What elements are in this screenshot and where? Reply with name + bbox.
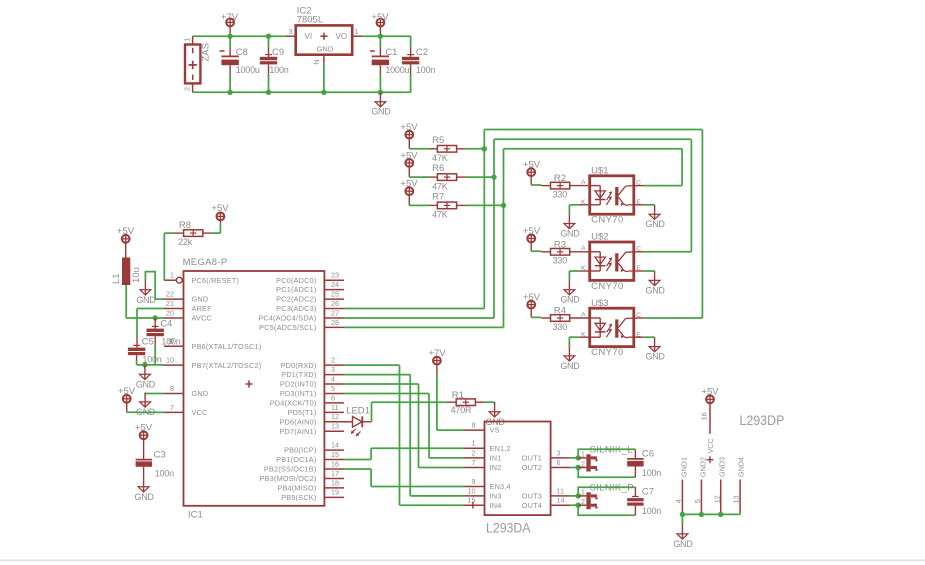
svg-text:330: 330	[553, 190, 568, 200]
svg-text:+5V: +5V	[118, 386, 136, 397]
svg-text:R4: R4	[554, 306, 566, 317]
svg-text:47K: 47K	[432, 181, 448, 191]
wire SILNIK_P loop	[578, 487, 635, 515]
wire top rail +5V out	[361, 35, 410, 37]
svg-text:IN4: IN4	[490, 501, 502, 510]
svg-text:4: 4	[674, 499, 683, 503]
wire pin8 GND	[145, 392, 164, 395]
svg-text:PD1(TXD): PD1(TXD)	[281, 370, 316, 379]
svg-text:GND: GND	[192, 389, 209, 398]
svg-text:C1: C1	[385, 47, 397, 58]
svg-text:GND: GND	[560, 295, 580, 305]
svg-text:22: 22	[166, 289, 174, 298]
svg-text:PB4(MISO): PB4(MISO)	[277, 483, 316, 492]
svg-text:17: 17	[331, 469, 339, 478]
svg-text:GND: GND	[135, 492, 155, 502]
svg-text:21: 21	[166, 299, 174, 308]
wire PC4 pin27 to R6 node	[344, 177, 494, 318]
svg-text:PC0(ADC0): PC0(ADC0)	[276, 276, 316, 285]
wire U$1 K to ground	[569, 205, 589, 214]
svg-text:CNY70: CNY70	[591, 215, 624, 226]
frame border line	[0, 559, 925, 561]
opto-coupler U$3 CNY70	[581, 298, 641, 358]
wire PD1 to IN3	[344, 375, 465, 496]
capacitor C4 100n	[147, 318, 181, 365]
junction C1 bottom	[378, 90, 383, 95]
resistor R1 470R	[447, 390, 495, 415]
svg-text:12: 12	[331, 412, 339, 421]
svg-text:+5V: +5V	[523, 292, 541, 303]
ground at pin22	[136, 280, 156, 304]
wire +7V to VS pin8	[437, 364, 465, 430]
svg-text:2: 2	[581, 499, 585, 506]
svg-text:A: A	[581, 179, 586, 186]
supply +5V for R4	[523, 292, 541, 317]
diode LED1	[346, 406, 370, 437]
svg-text:470R: 470R	[451, 405, 472, 415]
capacitor C8 1000u	[220, 36, 260, 92]
svg-text:PC4(ADC4/SDA): PC4(ADC4/SDA)	[258, 314, 316, 323]
svg-text:VCC: VCC	[706, 438, 715, 453]
svg-text:GND: GND	[192, 295, 209, 304]
svg-text:GND3: GND3	[718, 457, 727, 477]
junction +7V rail	[227, 34, 232, 39]
svg-text:A: A	[581, 245, 586, 252]
resistor R4 330	[531, 306, 590, 332]
wire net PC3 bus (U$3)	[484, 130, 702, 319]
svg-text:+5V: +5V	[701, 387, 719, 398]
svg-text:C8: C8	[236, 47, 248, 58]
svg-text:47K: 47K	[432, 210, 448, 220]
wire U$1 E emitter	[634, 204, 655, 206]
svg-text:ZAS: ZAS	[201, 43, 212, 61]
svg-text:L293DA: L293DA	[486, 520, 531, 536]
wire U$3 E emitter	[634, 336, 655, 338]
capacitor C3 100n	[136, 439, 175, 479]
svg-text:A: A	[581, 311, 586, 318]
microcontroller IC1 MEGA8-P	[164, 257, 344, 521]
wire pin22 GND detour	[145, 272, 164, 299]
svg-text:EN3,4: EN3,4	[490, 482, 511, 491]
svg-text:N: N	[312, 59, 321, 64]
junction OUT SILNIK_P 2	[570, 503, 581, 508]
wire LED1 to R1	[362, 402, 447, 422]
svg-text:20: 20	[166, 308, 174, 317]
L293DP power symbol	[674, 403, 784, 514]
svg-text:CNY70: CNY70	[591, 347, 624, 358]
svg-text:EN1,2: EN1,2	[490, 444, 511, 453]
svg-text:1: 1	[183, 37, 192, 41]
svg-text:C3: C3	[154, 449, 166, 460]
svg-text:23: 23	[331, 271, 339, 280]
battery ZAS	[183, 36, 212, 92]
wire U$2 C collector	[634, 251, 645, 253]
svg-text:GND: GND	[371, 107, 391, 117]
svg-text:C7: C7	[642, 486, 654, 497]
svg-text:10: 10	[468, 486, 476, 495]
ground L293DP	[673, 525, 693, 549]
svg-text:1: 1	[472, 439, 476, 448]
svg-text:+7V: +7V	[428, 348, 446, 359]
supply +5V for L1	[117, 226, 135, 243]
svg-text:GND: GND	[646, 219, 666, 229]
supply +5V for L293DP	[701, 387, 719, 404]
svg-text:+5V: +5V	[211, 203, 229, 214]
svg-text:2: 2	[472, 448, 476, 457]
junction OUT SILNIK_P 1	[570, 493, 581, 498]
opto-coupler U$2 CNY70	[581, 232, 641, 292]
resistor R6 47K	[409, 163, 494, 191]
regulator IC2 7805L	[286, 6, 361, 65]
svg-text:OUT1: OUT1	[522, 454, 542, 463]
wire U$2 K to ground	[569, 271, 589, 280]
svg-text:15: 15	[331, 450, 339, 459]
svg-text:GND1: GND1	[680, 457, 689, 477]
svg-text:U$1: U$1	[591, 165, 608, 176]
svg-text:10u: 10u	[131, 267, 142, 283]
svg-text:100n: 100n	[416, 65, 435, 75]
wire L293DP grounds	[682, 514, 740, 524]
svg-text:PB1(OC1A): PB1(OC1A)	[276, 455, 316, 464]
svg-text:14: 14	[331, 441, 339, 450]
motor driver L293DA	[465, 421, 571, 536]
capacitor C1 1000u	[370, 36, 410, 92]
svg-text:PB7(XTAL2/TOSC2): PB7(XTAL2/TOSC2)	[192, 361, 262, 370]
svg-text:PD6(AIN0): PD6(AIN0)	[279, 417, 316, 426]
svg-text:22k: 22k	[178, 237, 193, 247]
svg-text:PD4(XCK/T0): PD4(XCK/T0)	[270, 399, 317, 408]
ground for R1	[486, 402, 506, 426]
svg-text:OUT4: OUT4	[522, 501, 542, 510]
resistor R3 330	[531, 239, 590, 265]
wire bottom GND rail	[193, 91, 411, 93]
svg-text:6: 6	[331, 393, 335, 402]
wire U$1 C collector	[634, 185, 645, 187]
svg-text:GND4: GND4	[737, 457, 746, 477]
ground U$1 K	[560, 214, 580, 238]
supply +5V for VCC pin7	[118, 386, 136, 403]
svg-text:PD0(RXD): PD0(RXD)	[280, 361, 316, 370]
svg-text:PC2(ADC2): PC2(ADC2)	[276, 295, 316, 304]
svg-text:18: 18	[331, 478, 339, 487]
svg-text:24: 24	[331, 280, 339, 289]
svg-text:7: 7	[472, 458, 476, 467]
svg-text:GND: GND	[560, 229, 580, 239]
ground U$3 E	[646, 337, 666, 361]
wire U$3 C collector	[634, 317, 645, 319]
ground U$2 E	[646, 271, 666, 295]
supply +7V	[221, 12, 239, 36]
svg-text:19: 19	[331, 488, 339, 497]
junction C8 bottom	[227, 90, 232, 95]
supply +5V for R7	[400, 179, 418, 206]
svg-text:PB5(SCK): PB5(SCK)	[281, 493, 316, 502]
connector SILNIK_L	[578, 445, 632, 472]
svg-text:R5: R5	[432, 135, 444, 146]
junction AVCC node	[153, 315, 158, 320]
junction +5V rail	[378, 34, 383, 39]
svg-text:3: 3	[288, 27, 292, 36]
svg-text:GND: GND	[136, 379, 156, 389]
junction OUT SILNIK_L 1	[570, 455, 581, 460]
wire U$2 E emitter	[634, 270, 655, 272]
svg-text:12: 12	[712, 495, 721, 503]
supply +5V for C3	[135, 422, 153, 439]
svg-text:IN1: IN1	[490, 454, 502, 463]
resistor R5 47K	[409, 135, 484, 163]
pin 9 number overlap	[168, 337, 172, 346]
svg-text:+5V: +5V	[523, 226, 541, 237]
junction DP gnd 1	[680, 512, 685, 517]
svg-text:PB0(ICP): PB0(ICP)	[284, 446, 316, 455]
inductor L1 10u	[111, 243, 142, 285]
wire caps to PB7 pin10	[137, 364, 164, 366]
svg-text:330: 330	[553, 256, 568, 266]
junction DP gnd 2	[699, 512, 704, 517]
svg-text:PC6(/RESET): PC6(/RESET)	[192, 276, 240, 285]
svg-text:+5V: +5V	[371, 12, 389, 23]
svg-text:9: 9	[168, 337, 172, 346]
wire PB2 to EN3,4	[344, 469, 465, 487]
svg-text:PD3(INT1): PD3(INT1)	[280, 389, 317, 398]
svg-text:9: 9	[472, 477, 476, 486]
svg-text:PD7(AIN1): PD7(AIN1)	[279, 427, 316, 436]
svg-text:C5: C5	[142, 336, 154, 347]
svg-text:R7: R7	[432, 191, 444, 202]
wire IC2 GND pin to rail	[323, 63, 325, 92]
wire PD6 to LED1	[344, 421, 353, 423]
svg-text:LED1: LED1	[346, 406, 370, 417]
wire U$3 K to ground	[569, 337, 589, 346]
svg-text:PD5(T1): PD5(T1)	[288, 408, 317, 417]
resistor R8 22k	[164, 220, 220, 247]
svg-text:R2: R2	[554, 173, 566, 184]
opto-coupler U$1 CNY70	[581, 165, 641, 225]
svg-text:IC1: IC1	[188, 509, 203, 520]
svg-text:8: 8	[472, 421, 476, 430]
ground at XTAL node	[136, 365, 156, 389]
svg-text:100n: 100n	[642, 468, 661, 478]
junction C9 bottom	[266, 90, 271, 95]
wire net PC4 bus (U$2)	[494, 139, 691, 252]
svg-text:100n: 100n	[269, 65, 288, 75]
svg-text:10: 10	[166, 356, 174, 365]
svg-text:1: 1	[581, 490, 585, 497]
svg-text:7805L: 7805L	[297, 14, 323, 25]
svg-text:+5V: +5V	[523, 160, 541, 171]
svg-text:PC3(ADC3): PC3(ADC3)	[276, 304, 316, 313]
svg-text:100n: 100n	[642, 506, 661, 516]
svg-text:1000u: 1000u	[385, 65, 409, 75]
svg-text:AREF: AREF	[192, 304, 213, 313]
svg-text:R1: R1	[452, 390, 464, 401]
svg-text:OUT2: OUT2	[522, 463, 542, 472]
svg-text:25: 25	[331, 289, 339, 298]
svg-text:VCC: VCC	[192, 408, 208, 417]
wire SILNIK_L loop	[578, 449, 635, 477]
svg-text:IN3: IN3	[490, 492, 502, 501]
svg-text:R8: R8	[179, 220, 191, 231]
svg-text:7: 7	[170, 403, 174, 412]
supply +5V for R6	[400, 150, 418, 177]
wire R8 to /RESET pin1	[163, 233, 165, 280]
svg-text:2: 2	[331, 356, 335, 365]
svg-text:1: 1	[170, 271, 174, 280]
wire PD0 to IN4	[344, 365, 465, 505]
supply +5V for R5	[400, 122, 418, 149]
svg-text:PB6(XTAL1/TOSC1): PB6(XTAL1/TOSC1)	[192, 342, 262, 351]
svg-text:AVCC: AVCC	[192, 314, 213, 323]
svg-text:IN2: IN2	[490, 463, 502, 472]
wire L1 to AVCC pin20	[126, 285, 164, 318]
wire top rail VIN	[193, 35, 287, 37]
svg-text:GND: GND	[317, 45, 334, 54]
wire R1 to ground	[494, 402, 496, 404]
svg-text:+5V: +5V	[400, 122, 418, 133]
connector SILNIK_P	[578, 482, 634, 509]
junction DP gnd 3	[718, 512, 723, 517]
svg-text:13: 13	[732, 495, 741, 503]
ground U$2 K	[560, 280, 580, 304]
junction IC2 GND rail	[321, 90, 326, 95]
svg-text:R6: R6	[432, 163, 444, 174]
svg-text:15: 15	[468, 496, 476, 505]
svg-text:100n: 100n	[155, 469, 174, 479]
svg-text:L1: L1	[111, 273, 122, 284]
wire PD2 to IN2	[344, 384, 465, 467]
supply +5V for R2	[523, 160, 541, 185]
svg-text:1: 1	[581, 452, 585, 459]
svg-text:PB3(MOSI/OC2): PB3(MOSI/OC2)	[260, 474, 317, 483]
junction OUT SILNIK_L 2	[570, 465, 581, 470]
svg-text:GND: GND	[136, 295, 156, 305]
ground U$1 E	[646, 205, 666, 229]
svg-text:3: 3	[331, 365, 335, 374]
resistor R2 330	[531, 173, 590, 199]
svg-text:3: 3	[557, 448, 561, 457]
wire PC3 pin26 to R5 node	[344, 149, 484, 309]
svg-text:L293DP: L293DP	[739, 412, 784, 428]
capacitor C2 100n	[402, 36, 435, 92]
svg-text:GND: GND	[646, 352, 666, 362]
capacitor C6 100n	[627, 448, 661, 478]
svg-text:VI: VI	[305, 32, 313, 41]
svg-text:GND: GND	[646, 285, 666, 295]
svg-text:1: 1	[354, 27, 358, 36]
supply +5V for R8	[211, 203, 229, 221]
supply +5V (regulator out)	[371, 12, 389, 36]
svg-text:+5V: +5V	[400, 150, 418, 161]
svg-text:26: 26	[331, 299, 339, 308]
capacitor C7 100n	[627, 486, 661, 516]
svg-text:PB2(SS/OC1B): PB2(SS/OC1B)	[264, 465, 317, 474]
svg-text:OUT3: OUT3	[522, 492, 542, 501]
svg-text:14: 14	[557, 496, 565, 505]
svg-text:C9: C9	[272, 47, 284, 58]
junction XTAL GND node	[142, 362, 147, 367]
svg-text:GND2: GND2	[699, 457, 708, 477]
svg-text:PC1(ADC1): PC1(ADC1)	[276, 285, 316, 294]
svg-text:2: 2	[581, 461, 585, 468]
supply +7V for VS	[428, 348, 446, 365]
svg-text:330: 330	[553, 322, 568, 332]
ground (power rail)	[371, 92, 391, 116]
capacitor C5 100n	[128, 336, 162, 365]
svg-text:13: 13	[331, 422, 339, 431]
svg-text:11: 11	[557, 486, 564, 495]
svg-text:+5V: +5V	[117, 226, 135, 237]
svg-text:4: 4	[331, 374, 335, 383]
svg-text:16: 16	[699, 412, 708, 420]
svg-text:5: 5	[331, 384, 335, 393]
svg-text:PD2(INT0): PD2(INT0)	[280, 380, 317, 389]
svg-text:2: 2	[183, 87, 192, 91]
svg-text:1000u: 1000u	[236, 65, 260, 75]
svg-text:6: 6	[557, 458, 561, 467]
svg-text:C4: C4	[160, 318, 172, 329]
svg-text:U$2: U$2	[591, 232, 608, 243]
svg-text:+5V: +5V	[400, 179, 418, 190]
wire PB1 to EN1,2	[344, 448, 465, 459]
svg-text:+7V: +7V	[221, 12, 239, 23]
junction R6 node	[491, 174, 496, 179]
svg-text:GND: GND	[673, 539, 693, 549]
svg-text:VO: VO	[336, 32, 348, 41]
svg-text:MEGA8-P: MEGA8-P	[183, 257, 228, 268]
junction R7 node	[501, 203, 506, 208]
wire net PC5 bus (U$1)	[504, 149, 683, 206]
wire AREF pin21 to C5	[137, 309, 164, 337]
svg-text:PC5(ADC5/SCL): PC5(ADC5/SCL)	[259, 323, 316, 332]
svg-text:C2: C2	[416, 47, 428, 58]
capacitor C9 100n	[260, 36, 289, 92]
svg-text:5: 5	[693, 499, 702, 503]
wire PC5 pin28 to R7 node	[344, 205, 504, 327]
svg-text:11: 11	[331, 403, 338, 412]
svg-text:8: 8	[170, 384, 174, 393]
wire PD3 to IN1	[344, 393, 465, 457]
svg-text:28: 28	[331, 318, 339, 327]
svg-text:27: 27	[331, 308, 339, 317]
ground at pin8	[136, 392, 156, 416]
svg-text:VS: VS	[490, 426, 500, 435]
svg-text:16: 16	[331, 459, 339, 468]
svg-text:CNY70: CNY70	[591, 281, 624, 292]
svg-text:+5V: +5V	[135, 422, 153, 433]
supply +5V for R3	[523, 226, 541, 251]
wire +5V to VCC pin7	[127, 403, 164, 413]
svg-text:R3: R3	[554, 239, 566, 250]
junction R5 node	[482, 146, 487, 151]
junction C9 top	[266, 34, 271, 39]
ground below C3	[135, 477, 155, 501]
svg-text:C6: C6	[642, 448, 654, 459]
resistor R7 47K	[409, 191, 503, 219]
svg-text:47K: 47K	[432, 153, 448, 163]
ground U$3 K	[560, 347, 580, 371]
svg-text:GND: GND	[560, 361, 580, 371]
svg-text:U$3: U$3	[591, 298, 608, 309]
